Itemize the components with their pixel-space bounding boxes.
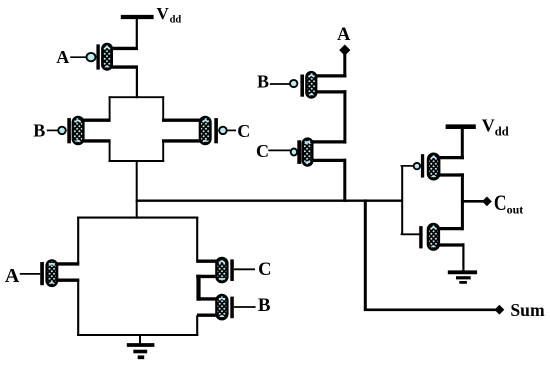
- wire B gate lead: [47, 129, 59, 131]
- label Cout: [494, 191, 523, 216]
- wire pmos A source down to pull-up bridge: [136, 66, 138, 99]
- pmos B (bridge left): [58, 117, 110, 144]
- label A (input node, middle top): [337, 25, 351, 45]
- nmos inverter: [419, 224, 463, 250]
- wire inverter pmos gate lead: [401, 165, 414, 167]
- svg-text:C: C: [256, 141, 269, 161]
- wire pmos C down to output node: [343, 159, 346, 202]
- wire output node down to Sum: [364, 199, 367, 309]
- ground (below pull-down network): [127, 335, 155, 357]
- svg-text:B: B: [258, 295, 271, 316]
- label B (left of bridge): [33, 121, 45, 141]
- node A diamond: [339, 45, 350, 56]
- wire inverter nmos gate lead: [401, 233, 420, 235]
- wire Cout horizontal: [461, 200, 484, 203]
- wire bridge to output node and pull-down network: [136, 161, 138, 219]
- label Vdd (right): [482, 116, 509, 139]
- label A (bottom left): [5, 265, 20, 287]
- label B (pull-down): [258, 295, 271, 316]
- svg-text:dd: dd: [495, 125, 509, 139]
- pmos B (middle series): [290, 72, 346, 97]
- svg-text:B: B: [33, 121, 45, 141]
- wire nmos C to nmos B series link: [196, 275, 200, 301]
- label C (right of bridge): [237, 121, 250, 141]
- svg-text:B: B: [257, 72, 269, 92]
- wire C gate lead: [227, 129, 236, 131]
- svg-text:C: C: [237, 121, 250, 141]
- wire C gate lead (pull-down): [234, 268, 255, 270]
- label C (pull-down): [258, 260, 271, 280]
- svg-text:A: A: [5, 265, 20, 287]
- label A (top left): [56, 47, 69, 67]
- wire nmos drain up to output node: [461, 201, 464, 231]
- nmos B (pull-down right bottom): [197, 295, 234, 319]
- svg-text:C: C: [258, 260, 271, 280]
- wire Sum horizontal: [364, 308, 496, 311]
- power Vdd bar (right): [446, 124, 476, 129]
- svg-text:C: C: [494, 191, 507, 215]
- svg-text:dd: dd: [170, 14, 182, 25]
- power Vdd bar (top left): [121, 15, 154, 19]
- wire B gate lead (middle): [270, 83, 290, 85]
- pmos inverter: [414, 154, 464, 180]
- label Vdd (top left): [157, 4, 182, 26]
- svg-text:V: V: [482, 116, 495, 136]
- wire pmos B to pmos C (middle series): [343, 90, 346, 143]
- svg-text:out: out: [507, 203, 524, 217]
- wire pmos to output node Cout: [461, 173, 464, 202]
- svg-text:Sum: Sum: [510, 300, 545, 320]
- nmos C (pull-down right top): [196, 258, 234, 282]
- label C (middle): [256, 141, 269, 161]
- pmos C (bridge right): [162, 117, 227, 144]
- wire C gate lead (middle): [268, 149, 291, 151]
- wire B gate lead (pull-down): [234, 306, 256, 308]
- wire Vdd to pmos A drain: [136, 19, 138, 50]
- node Cout diamond: [482, 197, 492, 207]
- wire nmos source down to ground: [462, 243, 464, 271]
- wire inverter gate vertical: [401, 166, 403, 234]
- wire A gate lead (bottom): [20, 273, 40, 275]
- wire node A down to pmos B: [343, 54, 346, 78]
- pmos C (middle series): [291, 139, 346, 166]
- ground (inverter): [448, 272, 477, 282]
- wire A gate lead: [70, 56, 87, 58]
- svg-text:A: A: [56, 47, 69, 67]
- label Sum: [510, 300, 545, 320]
- svg-text:V: V: [157, 4, 170, 23]
- label B (middle): [257, 72, 269, 92]
- wire pull-up bridge loop (rectangle): [109, 96, 165, 162]
- wire Vdd to inverter pmos: [461, 129, 464, 160]
- wire pull-down network loop (rectangle): [77, 217, 198, 336]
- wire output node horizontal: [136, 199, 403, 201]
- svg-text:A: A: [337, 25, 351, 45]
- pmos A (top left): [87, 44, 138, 70]
- nmos A (pull-down left): [40, 260, 79, 286]
- node Sum diamond: [495, 305, 505, 315]
